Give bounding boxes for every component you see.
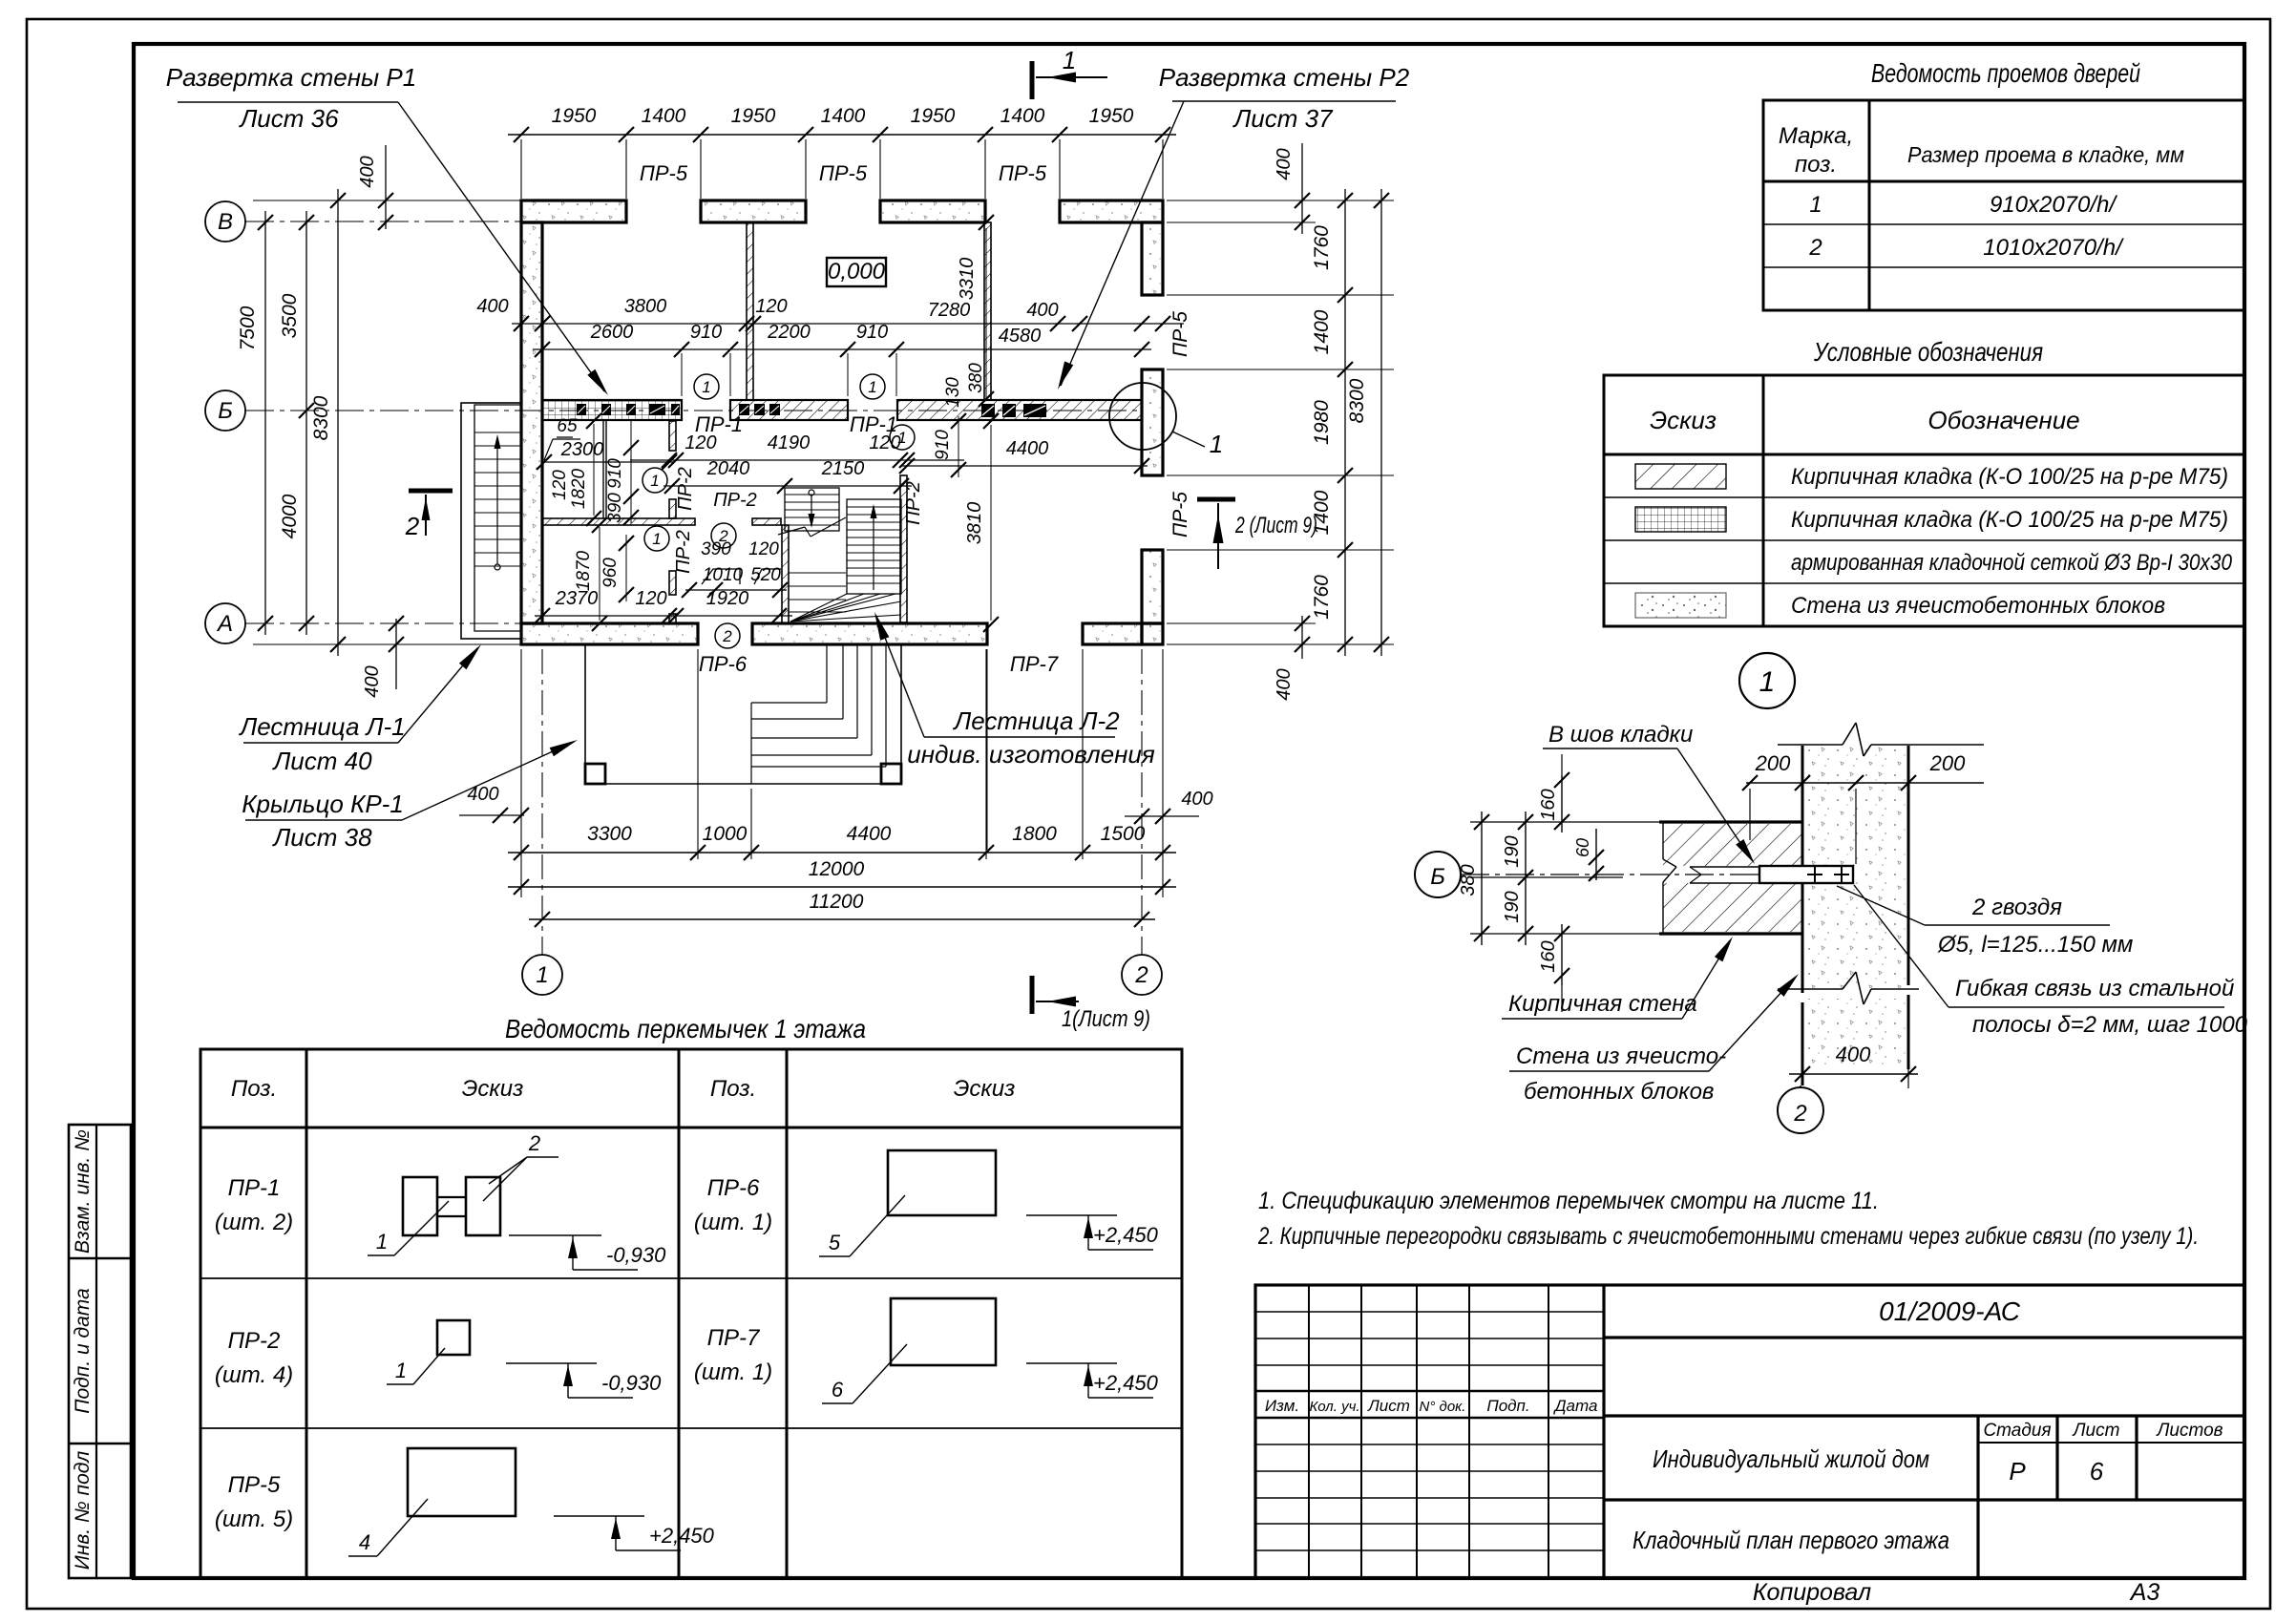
svg-text:Лист 37: Лист 37 [1232,104,1334,133]
svg-text:Ведомость проемов дверей: Ведомость проемов дверей [1871,58,2140,88]
interior dim line y482 120/4190/120 [630,459,964,461]
dims 910/390 rotated at partition P3 [630,420,632,523]
svg-text:8300: 8300 [310,395,332,440]
svg-text:1: 1 [376,1230,388,1254]
svg-text:Инв. № подл: Инв. № подл [72,1451,94,1570]
top exterior wall segment 3 [880,200,985,222]
svg-text:7280: 7280 [928,300,971,321]
svg-text:4400: 4400 [847,823,892,845]
svg-text:910: 910 [605,458,625,489]
brick wall (detail) [1663,824,1802,866]
ПР-1 level mark -0,930 [509,1234,601,1236]
ПР-1 leader 1 [394,1201,449,1255]
svg-text:(шт. 4): (шт. 4) [215,1362,293,1388]
lintel table frame [200,1049,1182,1578]
door mark 1 circle band1 [694,374,719,399]
svg-text:Лестница Л-1: Лестница Л-1 [238,712,405,741]
bottom witness lines [520,649,522,897]
svg-text:1400: 1400 [821,105,866,127]
lintel blocks band 1 [577,404,586,415]
svg-text:200: 200 [1929,751,1966,775]
title block project cell [1604,1414,2244,1417]
svg-text:Обозначение: Обозначение [1927,406,2079,434]
svg-text:400: 400 [1274,668,1295,700]
svg-text:65: 65 [557,416,578,436]
nail cross marks [1807,874,1822,875]
partition P3 bottom [669,614,676,623]
svg-text:ПР-5: ПР-5 [1169,311,1191,357]
axis Б line [245,410,1142,411]
strip mortar joint break [1690,866,1759,868]
svg-text:ПР-7: ПР-7 [1010,652,1059,676]
axis В circle [205,201,245,242]
svg-text:ПР-5: ПР-5 [1169,492,1191,537]
svg-text:1400: 1400 [642,105,686,127]
svg-text:2200: 2200 [767,322,811,343]
bottom exterior wall segment 2 [752,623,987,644]
svg-text:4190: 4190 [768,432,811,453]
svg-text:ПР-7: ПР-7 [707,1325,761,1351]
svg-text:+2,450: +2,450 [649,1524,715,1548]
svg-text:1010х2070/h/: 1010х2070/h/ [1983,235,2124,261]
svg-text:армированная кладочной сеткой: армированная кладочной сеткой Ø3 Вр-I 30… [1791,550,2233,576]
svg-text:2370: 2370 [555,588,599,609]
axis А line [245,622,521,624]
brick wall left break [1662,822,1664,859]
stair right flight [847,499,901,594]
dim ticks door line [685,589,787,591]
svg-text:380: 380 [966,363,986,393]
svg-text:400: 400 [1836,1043,1871,1066]
dim 3810 rotated [990,425,992,621]
svg-text:380: 380 [1458,864,1479,896]
title block document number cell [1604,1336,2244,1338]
svg-text:4: 4 [359,1530,370,1554]
brick wall top edge [1659,820,1802,823]
dim 3310 rotated [985,228,987,400]
stair upper flight [785,488,839,531]
ПР-1 leader 2 [483,1157,527,1201]
partition H1 left [542,518,695,525]
stair winder treads [789,572,846,574]
svg-text:Индивидуальный жилой дом: Индивидуальный жилой дом [1653,1444,1929,1473]
right witness lines [1167,200,1394,201]
svg-text:ПР-2: ПР-2 [228,1328,281,1354]
svg-text:2: 2 [1134,962,1148,988]
ПР-6 level mark +2,450 [1026,1214,1117,1216]
door leaf symbol b [754,569,781,584]
svg-text:390: 390 [605,493,625,523]
svg-text:400: 400 [1181,789,1212,810]
steel strip tie [1759,866,1853,883]
interior dim line y366 [533,348,1151,350]
lintel blocks band 3 [981,404,995,417]
svg-text:120: 120 [869,432,900,453]
svg-text:Ведомость перкемычек 1 этажа: Ведомость перкемычек 1 этажа [505,1014,866,1043]
door mark 1 circle band2 [860,374,885,399]
svg-text:Поз.: Поз. [710,1076,756,1102]
svg-text:Копировал: Копировал [1753,1579,1871,1606]
stair west wall [782,525,789,623]
svg-text:3300: 3300 [587,823,632,845]
dim 1820 rotated [593,424,595,516]
svg-text:ПР-5: ПР-5 [640,161,688,185]
axis А circle [205,603,245,643]
svg-text:Кирпичная кладка (К-О 100/25 н: Кирпичная кладка (К-О 100/25 на р-ре М75… [1791,507,2228,533]
svg-text:Гибкая связь из стальной: Гибкая связь из стальной [1955,976,2234,1001]
svg-text:2. Кирпичные перегородки связы: 2. Кирпичные перегородки связывать с яче… [1257,1223,2199,1250]
brick wall band 3 on axis Б [897,400,1142,420]
svg-text:2600: 2600 [590,322,634,343]
legend row 2 swatch reinforced brick [1635,507,1726,532]
svg-text:В шов кладки: В шов кладки [1548,722,1693,748]
svg-text:1: 1 [897,429,906,447]
dim 4400 [901,465,1148,467]
detail dim 400 bottom [1789,1073,1918,1075]
svg-text:Лестница Л-2: Лестница Л-2 [952,706,1120,735]
svg-text:Лист 40: Лист 40 [271,747,372,775]
svg-text:3310: 3310 [957,258,978,301]
section mark 2 right [1197,497,1235,502]
title block sheet name cell [1604,1498,2244,1501]
legend row 1 swatch brick hatch [1635,464,1726,489]
interior dim line y339 [512,323,1184,325]
svg-text:ПР-2: ПР-2 [713,490,757,511]
callout Р1 leader [398,102,604,391]
svg-text:2 (Лист 9): 2 (Лист 9) [1234,513,1317,538]
svg-text:3810: 3810 [964,502,985,545]
svg-text:1: 1 [868,378,876,396]
left dim 7500 [264,211,266,635]
svg-text:120: 120 [635,588,666,609]
svg-text:-0,930: -0,930 [606,1243,666,1267]
door mark 1 circle b [644,526,669,551]
svg-text:1: 1 [1809,192,1822,218]
bottom exterior wall segment 3 [1083,623,1142,644]
svg-text:400: 400 [362,665,383,697]
svg-text:2: 2 [1793,1101,1806,1127]
external stair direction line [495,564,500,570]
svg-text:1950: 1950 [911,105,956,127]
top dimension chain 1950/1400 [508,134,1176,136]
svg-text:910: 910 [856,322,888,343]
block wall bottom break line [1778,988,1843,990]
svg-text:4400: 4400 [1006,438,1049,459]
svg-text:6: 6 [832,1378,844,1402]
svg-text:Размер проема в кладке, мм: Размер проема в кладке, мм [1907,142,2184,167]
brick wall bottom edge [1659,932,1802,935]
svg-text:+2,450: +2,450 [1093,1223,1159,1247]
svg-text:130: 130 [943,377,963,408]
block wall top edge with break [1778,744,1843,746]
svg-text:200: 200 [1755,751,1791,775]
svg-text:Условные обозначения: Условные обозначения [1813,337,2043,367]
svg-text:Эскиз: Эскиз [954,1076,1016,1102]
svg-text:ПР-6: ПР-6 [707,1175,760,1201]
svg-text:1800: 1800 [1012,823,1057,845]
svg-text:2150: 2150 [821,458,865,479]
detail dim 60 [1595,829,1597,880]
left witness lines [253,200,521,201]
dim 910 right of stair [958,416,959,477]
svg-text:1(Лист 9): 1(Лист 9) [1062,1006,1150,1032]
svg-text:1: 1 [650,472,659,490]
top exterior wall segment 2 [701,200,806,222]
svg-text:11200: 11200 [810,891,864,913]
porch outline bottom [585,783,901,785]
svg-text:Лист 38: Лист 38 [271,823,372,852]
axis Б line (detail) [1461,874,1766,875]
detail dims 200 200 [1746,782,1984,784]
svg-text:(шт. 5): (шт. 5) [215,1507,293,1532]
stair right flight direction arrow [873,508,874,590]
svg-text:160: 160 [1538,789,1559,820]
svg-text:2: 2 [528,1131,540,1155]
section mark 1 bottom [1030,976,1035,1014]
ПР-7 leader 6 [853,1344,907,1403]
svg-text:2: 2 [1808,235,1822,261]
svg-text:400: 400 [476,296,508,317]
svg-text:120: 120 [748,539,779,559]
svg-text:ПР-2: ПР-2 [903,481,924,525]
callout Р2 leader [1061,101,1184,386]
svg-text:1500: 1500 [1101,823,1146,845]
svg-text:190: 190 [1502,835,1523,867]
dim 2300 with leader [543,461,674,463]
svg-text:Подп. и дата: Подп. и дата [72,1288,94,1413]
svg-text:60: 60 [1573,838,1592,857]
svg-text:1: 1 [1063,46,1076,74]
detail dim 160 bottom [1561,924,1563,985]
svg-text:1950: 1950 [731,105,776,127]
svg-text:1: 1 [1759,666,1776,698]
title block outline [1255,1285,2244,1578]
axis Б circle (detail) [1415,852,1461,897]
left dim chain 3500/4000 [305,211,307,635]
witness ПР-7 door [986,649,988,850]
detail dim 160 top [1561,775,1563,833]
right dim 8300 [1380,189,1382,656]
partition P2 [984,222,991,400]
left dim 400 bottom [395,619,397,689]
svg-text:Стадия: Стадия [1983,1421,2051,1441]
right exterior wall segment 3 [1142,550,1163,623]
svg-text:5: 5 [829,1231,841,1254]
svg-text:Кладочный план первого этажа: Кладочный план первого этажа [1632,1526,1949,1554]
svg-text:Крыльцо КР-1: Крыльцо КР-1 [242,790,404,818]
svg-text:0,000: 0,000 [828,259,886,285]
axis 1 circle [522,955,562,995]
svg-text:ПР-6: ПР-6 [699,652,748,676]
top dimension witness lines [520,139,522,199]
svg-text:910х2070/h/: 910х2070/h/ [1990,192,2117,218]
svg-text:1400: 1400 [1311,309,1333,354]
bottom right corner wall [1142,623,1163,644]
svg-text:полосы δ=2 мм, шаг 1000: полосы δ=2 мм, шаг 1000 [1972,1012,2248,1038]
svg-text:Лист: Лист [1367,1397,1410,1415]
thin partition 65mm [602,420,604,518]
svg-text:Б: Б [218,398,233,424]
axis В line [245,221,521,222]
svg-text:ПР-2: ПР-2 [673,530,694,574]
svg-text:1: 1 [395,1359,407,1382]
door mark 1 circle band3 [890,425,915,450]
svg-text:ПР-1: ПР-1 [228,1175,281,1201]
svg-text:Изм.: Изм. [1265,1397,1299,1415]
partition H1 right piece [752,518,781,525]
axis 2 line to circle [1141,649,1143,955]
svg-text:ПР-5: ПР-5 [819,161,868,185]
svg-text:1400: 1400 [1001,105,1045,127]
svg-text:Развертка стены Р1: Развертка стены Р1 [166,63,416,92]
porch outline left [584,644,586,784]
external stair inner rect [474,405,521,631]
svg-text:4000: 4000 [279,494,301,538]
ПР-2 sketch block [437,1320,470,1355]
porch outline right [900,644,902,784]
svg-text:190: 190 [1502,891,1523,922]
svg-text:ПР-2: ПР-2 [675,467,696,511]
svg-text:120: 120 [755,296,787,317]
porch column left [585,764,605,784]
legend table [1604,375,2244,626]
brick wall band 1 on axis Б [542,400,682,420]
svg-text:Б: Б [1430,864,1445,890]
svg-text:01/2009-АС: 01/2009-АС [1879,1296,2021,1326]
interior dim line y645 2370/120/1920 [535,615,792,617]
door mark 2 circle stair room [711,523,736,548]
stair winder fan [790,594,847,622]
svg-text:1760: 1760 [1311,575,1333,620]
svg-text:1870: 1870 [574,550,594,591]
svg-text:(шт. 1): (шт. 1) [694,1360,772,1385]
partition P3 lower [669,571,676,595]
svg-text:N° док.: N° док. [1420,1399,1466,1415]
brick wall band 2 on axis Б [730,400,848,420]
ПР-5 leader 4 [377,1499,428,1556]
svg-text:-0,930: -0,930 [601,1371,662,1395]
axis 1 line to circle [541,649,543,955]
axis Б circle [205,390,245,431]
detail dim 190 190 [1525,811,1527,945]
title block small grid [1308,1285,1310,1578]
ПР-7 level mark +2,450 [1026,1362,1117,1364]
bottom dim 12000 [508,886,1176,888]
svg-text:6: 6 [2090,1457,2104,1486]
partition P3 mid [669,499,676,518]
partition P3 upper [669,421,676,451]
svg-text:Лист 36: Лист 36 [238,104,339,133]
node 1 leader on plan [1172,432,1205,447]
ПР-6 leader 5 [850,1195,905,1256]
svg-text:1: 1 [702,378,710,396]
svg-text:Кирпичная стена: Кирпичная стена [1508,991,1697,1017]
legend row 4 swatch aerated concrete [1635,593,1726,618]
door openings table [1763,100,2244,310]
svg-text:910: 910 [690,322,722,343]
detail dim 380 [1481,811,1483,945]
top exterior wall segment 4 [1060,200,1163,222]
bottom dim 11200 [529,918,1155,920]
title block stage/sheet header [1976,1416,1979,1578]
svg-text:960: 960 [600,558,621,588]
right dim 400 top [1301,143,1303,234]
svg-text:120: 120 [685,432,716,453]
svg-text:Кирпичная кладка (К-О 100/25 н: Кирпичная кладка (К-О 100/25 на р-ре М75… [1791,464,2228,490]
svg-text:120: 120 [550,470,570,500]
stair break line [778,527,805,535]
svg-text:Кол. уч.: Кол. уч. [1309,1399,1359,1415]
svg-text:400: 400 [1026,300,1058,321]
svg-text:400: 400 [1274,148,1295,179]
node 2 marker circle (detail) [1800,1086,1801,1088]
ПР-2 level mark -0,930 [506,1362,597,1364]
svg-text:160: 160 [1538,940,1559,972]
svg-text:Поз.: Поз. [231,1076,277,1102]
ПР-6 sketch block [888,1150,996,1215]
svg-text:2040: 2040 [706,458,750,479]
svg-text:Стена из ячеистобетонных блоко: Стена из ячеистобетонных блоков [1791,593,2165,619]
bottom exterior wall segment 1 [521,623,698,644]
svg-text:Лист: Лист [2072,1421,2120,1441]
svg-text:2: 2 [405,512,420,540]
left margin attribute boxes [69,1125,131,1578]
svg-text:В: В [218,209,233,235]
svg-text:3800: 3800 [624,296,667,317]
section mark 2 left [409,489,453,494]
svg-text:бетонных блоков: бетонных блоков [1524,1079,1714,1105]
svg-text:400: 400 [467,784,498,805]
right dim chain 1760/1400/1980/1400/1760 [1344,189,1346,656]
svg-text:индив. изготовления: индив. изготовления [907,740,1155,769]
section mark 1 top [1030,61,1035,99]
svg-text:4580: 4580 [999,326,1042,347]
interior dim line y509 2040/2150 [664,485,912,487]
svg-text:Дата: Дата [1553,1397,1598,1415]
svg-text:Стена из ячеисто-: Стена из ячеисто- [1516,1043,1726,1069]
svg-text:2 гвоздя: 2 гвоздя [1971,895,2062,920]
ПР-5 level mark +2,450 [554,1515,644,1517]
svg-text:8300: 8300 [1346,378,1368,423]
door leaf symbol a [702,569,740,584]
external stair treads [474,432,521,433]
svg-text:2300: 2300 [560,439,604,460]
lintel blocks band 2 [739,404,749,415]
svg-text:Взам. инв. №: Взам. инв. № [72,1129,94,1254]
detail dim witness lines [1470,821,1659,823]
svg-text:А: А [216,611,233,637]
svg-text:7500: 7500 [237,306,259,350]
porch steps [826,644,828,703]
svg-text:Р: Р [2009,1457,2026,1486]
svg-text:1000: 1000 [703,823,748,845]
svg-text:400: 400 [357,156,378,187]
svg-text:1980: 1980 [1311,400,1333,445]
ПР-1 sketch blocks [403,1177,437,1235]
svg-text:(шт. 1): (шт. 1) [694,1210,772,1235]
svg-text:3500: 3500 [279,293,301,338]
dims lower-left room [599,527,600,621]
top exterior wall segment 1 [521,200,626,222]
stair east wall [900,475,907,622]
svg-text:Эскиз: Эскиз [1650,406,1717,434]
svg-text:Развертка стены Р2: Развертка стены Р2 [1159,63,1410,92]
svg-text:А3: А3 [2129,1579,2160,1606]
block wall right edge line [1907,746,1910,985]
svg-text:1: 1 [536,962,548,988]
svg-text:1. Спецификацию элементов пере: 1. Спецификацию элементов перемычек смот… [1258,1188,1879,1214]
svg-text:ПР-5: ПР-5 [228,1472,281,1498]
